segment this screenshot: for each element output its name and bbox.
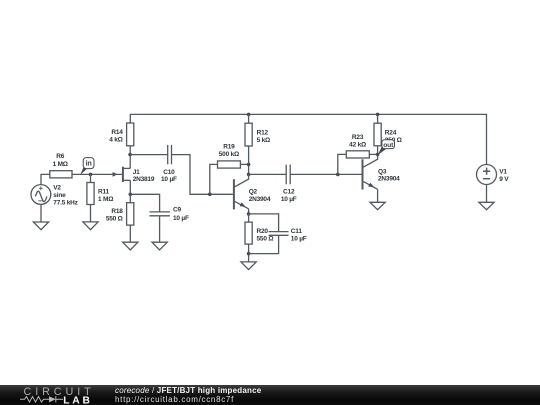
svg-text:10 µF: 10 µF (291, 235, 307, 242)
svg-text:corecode / JFET/BJT high imped: corecode / JFET/BJT high impedance (115, 386, 262, 395)
wire drain vertical (129, 155, 131, 169)
node K (rail R24) (376, 113, 380, 117)
svg-text:R11: R11 (98, 189, 110, 196)
svg-text:R23: R23 (352, 134, 364, 141)
jfet J1 (113, 167, 131, 195)
svg-text:LAB: LAB (63, 396, 93, 405)
svg-text:R14: R14 (111, 129, 123, 136)
resistor R6 (41, 171, 72, 185)
svg-text:4 kΩ: 4 kΩ (109, 137, 122, 144)
labels (53, 129, 510, 242)
svg-text:R12: R12 (257, 130, 269, 137)
transistor Q2 (234, 174, 249, 214)
node H (Q2 emitter) (247, 212, 251, 216)
svg-text:C12: C12 (283, 189, 295, 196)
source V1 (477, 165, 497, 203)
svg-text:R20: R20 (257, 228, 269, 235)
svg-text:5 kΩ: 5 kΩ (257, 137, 270, 144)
svg-text:1 MΩ: 1 MΩ (53, 161, 68, 168)
svg-text:C9: C9 (173, 207, 181, 214)
svg-text:R6: R6 (56, 153, 64, 160)
resistor R24 (374, 114, 381, 154)
ground (R18) (123, 242, 138, 250)
svg-text:2N3819: 2N3819 (133, 176, 155, 183)
ground (R11) (83, 222, 98, 230)
svg-text:R19: R19 (223, 144, 235, 151)
flag out (378, 140, 395, 155)
ground (R20) (241, 262, 256, 270)
svg-text:9 V: 9 V (499, 176, 509, 183)
logo CIRCUIT LAB (20, 386, 95, 405)
node J (Q3 base/R23) (336, 173, 340, 177)
resistor R14 (127, 123, 134, 155)
svg-text:C11: C11 (291, 228, 303, 235)
node L (Q3 collector) (376, 153, 380, 157)
svg-text:2N3904: 2N3904 (249, 196, 271, 203)
svg-text:10 µF: 10 µF (173, 215, 189, 222)
svg-text:V2: V2 (53, 185, 61, 192)
node A (J1 drain) (128, 153, 132, 157)
wire top rail (130, 114, 486, 164)
node F (R19/R12) (247, 163, 251, 167)
transistor Q3 (363, 155, 378, 203)
svg-text:R18: R18 (111, 208, 123, 215)
capacitor C11 (249, 214, 289, 254)
ground (V2) (33, 222, 48, 230)
node C (J1 source) (129, 193, 133, 197)
resistor R18 (127, 194, 134, 242)
node G (Q2 collector) (247, 173, 251, 177)
capacitor C12 (249, 165, 362, 185)
svg-text:550 Ω: 550 Ω (106, 216, 123, 223)
svg-text:R24: R24 (385, 129, 397, 136)
resistor R11 (87, 174, 94, 222)
svg-text:10 µF: 10 µF (161, 176, 177, 183)
svg-text:http://circuitlab.com/ccn8c7f: http://circuitlab.com/ccn8c7f (115, 395, 234, 404)
svg-text:42 kΩ: 42 kΩ (349, 141, 366, 148)
svg-text:out: out (383, 142, 394, 149)
node B (input) (89, 173, 93, 177)
resistor R12 (245, 114, 252, 174)
flag in (80, 158, 94, 175)
ground (C9) (152, 242, 167, 250)
node E (rail R12) (247, 113, 251, 117)
svg-text:sine: sine (53, 192, 66, 199)
svg-text:Q3: Q3 (378, 169, 387, 176)
capacitor C9 (130, 194, 170, 242)
resistor R20 (245, 214, 252, 262)
source V2 (31, 185, 51, 222)
svg-text:1 MΩ: 1 MΩ (98, 196, 113, 203)
resistor R19 (210, 161, 249, 194)
node I (R20 bottom) (247, 252, 251, 256)
node D (R19 base) (208, 193, 212, 197)
ground (Q3) (370, 202, 385, 209)
svg-text:500 kΩ: 500 kΩ (219, 151, 239, 158)
svg-text:V1: V1 (499, 168, 507, 175)
svg-text:77.5 kHz: 77.5 kHz (53, 200, 78, 207)
wire gate (73, 173, 122, 175)
capacitor C10 (130, 145, 233, 194)
svg-text:in: in (86, 158, 92, 167)
svg-text:2N3904: 2N3904 (378, 176, 400, 183)
resistor R23 (338, 151, 378, 175)
svg-text:Q2: Q2 (249, 188, 258, 195)
ground (V1) (479, 202, 494, 209)
svg-text:550 Ω: 550 Ω (257, 235, 274, 242)
svg-text:10 µF: 10 µF (281, 196, 297, 203)
